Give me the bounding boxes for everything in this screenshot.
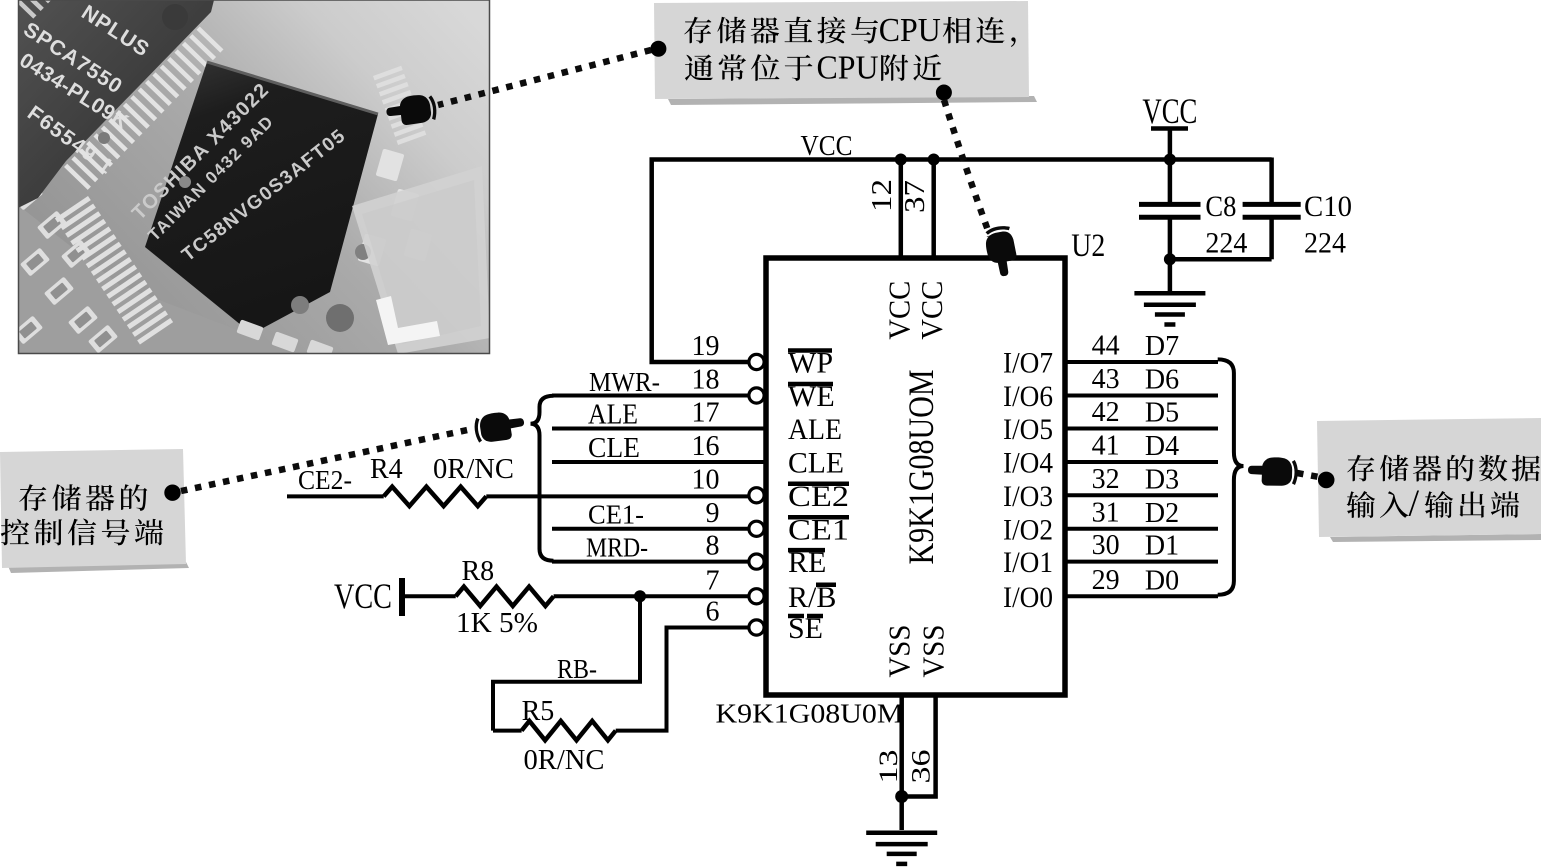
resistor R4 — [384, 487, 487, 506]
resistor R5 — [522, 721, 616, 740]
svg-text:18: 18 — [692, 365, 720, 396]
wire VCC left drop to pin 19 — [652, 158, 750, 363]
IC pin label WE — [788, 380, 835, 413]
wire VCC rail — [650, 157, 1272, 162]
svg-text:R8: R8 — [462, 556, 495, 587]
svg-text:D4: D4 — [1145, 431, 1179, 462]
junction node VCC/pin37 — [928, 154, 940, 166]
svg-text:I/O1: I/O1 — [1003, 546, 1053, 579]
svg-text:K9K1G08UOM: K9K1G08UOM — [901, 370, 941, 565]
svg-text:I/O5: I/O5 — [1003, 413, 1053, 446]
ground (top right) — [1134, 291, 1205, 296]
wire to ground (top right) — [1168, 259, 1173, 293]
wire MRD- (pin 8) — [552, 560, 749, 564]
wire I/O7 (pin 44) — [1065, 360, 1218, 364]
svg-text:D7: D7 — [1145, 331, 1179, 362]
IC pin label RB — [788, 581, 836, 614]
capacitor C8 — [1139, 204, 1201, 259]
svg-text:224: 224 — [1304, 227, 1346, 260]
svg-text:ALE: ALE — [588, 400, 638, 431]
svg-text:CE1-: CE1- — [588, 500, 644, 530]
svg-text:C8: C8 — [1205, 190, 1236, 223]
svg-text:ALE: ALE — [788, 413, 842, 446]
junction node VSS — [895, 790, 908, 803]
svg-text:RB-: RB- — [557, 654, 597, 684]
wire CE2- left segment — [287, 494, 384, 498]
svg-text:31: 31 — [1092, 497, 1120, 528]
wire VCC to R8 — [402, 594, 456, 598]
dotted leader right brace to right callout — [1297, 473, 1319, 477]
wire R5 left stub — [493, 729, 522, 733]
wire R5 to pin 6 — [616, 628, 750, 731]
right callout box — [1317, 418, 1541, 542]
via dot — [162, 4, 188, 30]
svg-text:MWR-: MWR- — [589, 367, 660, 397]
svg-text:D3: D3 — [1145, 464, 1179, 495]
TOSHIBA chip — [145, 62, 378, 334]
svg-text:CE2-: CE2- — [298, 465, 352, 495]
wire I/O2 (pin 31) — [1065, 527, 1218, 531]
svg-text:VCC: VCC — [914, 281, 949, 340]
svg-text:CPU: CPU — [879, 12, 941, 49]
wire ALE (pin 17) — [552, 427, 766, 431]
junction node R/B — [634, 590, 646, 602]
svg-text:6: 6 — [706, 597, 720, 628]
svg-text:D0: D0 — [1145, 565, 1179, 596]
svg-text:C10: C10 — [1304, 190, 1352, 223]
svg-text:43: 43 — [1092, 364, 1120, 395]
pin 10 bubble — [749, 488, 764, 503]
pin 9 bubble — [749, 521, 764, 536]
wire I/O1 (pin 30) — [1065, 560, 1218, 564]
svg-text:12: 12 — [867, 179, 898, 212]
IC pin label RE — [788, 546, 826, 579]
svg-text:36: 36 — [907, 750, 936, 784]
VCC power symbol — [1142, 91, 1197, 204]
capacitor C10 — [1170, 158, 1301, 260]
ground (bottom) — [866, 830, 937, 835]
junction node C8/C10 bottom — [1164, 253, 1176, 265]
sunplus pin row — [64, 26, 223, 189]
svg-text:I/O3: I/O3 — [1003, 480, 1053, 513]
hand pointer at right brace — [1247, 456, 1298, 487]
white L marking — [376, 296, 440, 345]
control signals brace — [531, 396, 554, 561]
svg-text:CLE: CLE — [788, 447, 844, 480]
svg-text:0R/NC: 0R/NC — [524, 745, 605, 776]
wire I/O4 (pin 41) — [1065, 460, 1218, 464]
IC U2 body — [766, 258, 1065, 695]
pin 8 bubble — [749, 554, 764, 569]
svg-text:K9K1G08U0M: K9K1G08U0M — [716, 699, 904, 729]
IC pin label ALE — [788, 413, 842, 446]
wire CLE (pin 16) — [552, 460, 766, 464]
svg-text:VSS: VSS — [916, 625, 951, 678]
translucent tape — [352, 166, 490, 354]
IC pin label CE2 — [788, 480, 849, 513]
svg-text:CLE: CLE — [588, 433, 640, 464]
IC pin label CLE — [788, 447, 844, 480]
svg-text:29: 29 — [1092, 565, 1120, 596]
svg-text:32: 32 — [1092, 464, 1120, 495]
IC pin label WP — [788, 347, 833, 380]
dotted leader photo to top callout — [438, 50, 651, 105]
svg-text:R4: R4 — [370, 454, 403, 485]
svg-text:VCC: VCC — [882, 281, 917, 340]
wire pin 36 (VSS) — [902, 695, 936, 797]
wire pin 13 (VSS) — [899, 695, 904, 830]
svg-text:I/O7: I/O7 — [1003, 347, 1053, 380]
photo of memory chips on PCB — [13, 0, 490, 361]
svg-text:37: 37 — [900, 180, 931, 213]
IC pin label CE1 — [788, 513, 849, 546]
svg-text:42: 42 — [1092, 397, 1120, 428]
pads right — [376, 149, 405, 182]
svg-text:VCC: VCC — [334, 576, 392, 616]
toshiba pin row right — [373, 66, 426, 145]
toshiba pin row left — [55, 196, 173, 345]
left callout box — [0, 449, 189, 573]
wire R8 to pin 7 — [554, 594, 750, 598]
svg-text:7: 7 — [706, 565, 720, 596]
svg-text:D1: D1 — [1145, 531, 1179, 562]
svg-text:13: 13 — [874, 750, 903, 784]
svg-text:MRD-: MRD- — [586, 533, 648, 563]
svg-text:16: 16 — [692, 431, 720, 462]
pcb solder pads — [13, 182, 43, 211]
svg-text:VSS: VSS — [882, 625, 917, 678]
svg-text:U2: U2 — [1071, 228, 1105, 264]
dotted leader left callout to brace — [181, 429, 472, 491]
svg-text:10: 10 — [692, 464, 720, 495]
svg-text:D2: D2 — [1145, 498, 1179, 529]
SUNPLUS chip — [18, 0, 214, 208]
svg-text:0R/NC: 0R/NC — [433, 454, 514, 485]
svg-text:D6: D6 — [1145, 365, 1179, 396]
svg-text:I/O4: I/O4 — [1003, 447, 1053, 480]
hand pointer at IC top — [983, 224, 1019, 278]
wire R4 to pin 10 — [486, 494, 749, 498]
pin 6 bubble — [749, 620, 764, 635]
svg-text:1K 5%: 1K 5% — [456, 608, 538, 639]
wire RB- net — [493, 596, 640, 730]
resistor R8 — [456, 587, 554, 606]
svg-text:8: 8 — [706, 531, 720, 562]
junction node VCC/pin12 — [895, 154, 907, 166]
svg-text:224: 224 — [1205, 227, 1247, 260]
svg-text:9: 9 — [706, 498, 720, 529]
svg-text:44: 44 — [1092, 331, 1120, 362]
svg-text:VCC: VCC — [1142, 91, 1197, 131]
wire CE1- (pin 9) — [552, 527, 749, 531]
top callout box — [650, 1, 1037, 105]
dotted leader top callout to IC — [944, 100, 990, 236]
svg-text:17: 17 — [692, 398, 720, 429]
hand pointer at left brace — [472, 408, 526, 445]
pin 18 bubble — [749, 388, 764, 403]
hand pointer at photo — [385, 93, 438, 127]
svg-text:I/O0: I/O0 — [1003, 581, 1053, 614]
svg-text:I/O2: I/O2 — [1003, 513, 1053, 546]
pin 7 bubble — [749, 589, 764, 604]
svg-text:VCC: VCC — [801, 130, 853, 162]
wire I/O5 (pin 42) — [1065, 427, 1218, 431]
svg-text:/: / — [1409, 483, 1420, 525]
svg-text:CPU: CPU — [817, 50, 879, 87]
junction node VCC symbol/rail — [1164, 154, 1176, 166]
svg-text:30: 30 — [1092, 530, 1120, 561]
data bus brace — [1218, 359, 1244, 594]
svg-text:19: 19 — [692, 331, 720, 362]
wire I/O3 (pin 32) — [1065, 493, 1218, 497]
svg-text:D5: D5 — [1145, 398, 1179, 429]
svg-text:41: 41 — [1092, 431, 1120, 462]
pcb dark blobs — [326, 304, 354, 332]
svg-text:I/O6: I/O6 — [1003, 380, 1053, 413]
wire pin 12 — [899, 160, 904, 259]
svg-text:R5: R5 — [522, 696, 555, 727]
wire MWR- (pin 18) — [552, 394, 749, 398]
wire I/O6 (pin 43) — [1065, 394, 1218, 398]
wire I/O0 (pin 29) — [1065, 594, 1218, 598]
wire pin 37 — [931, 160, 936, 259]
IC pin label SE — [788, 612, 823, 645]
pin 19 bubble — [749, 354, 764, 369]
